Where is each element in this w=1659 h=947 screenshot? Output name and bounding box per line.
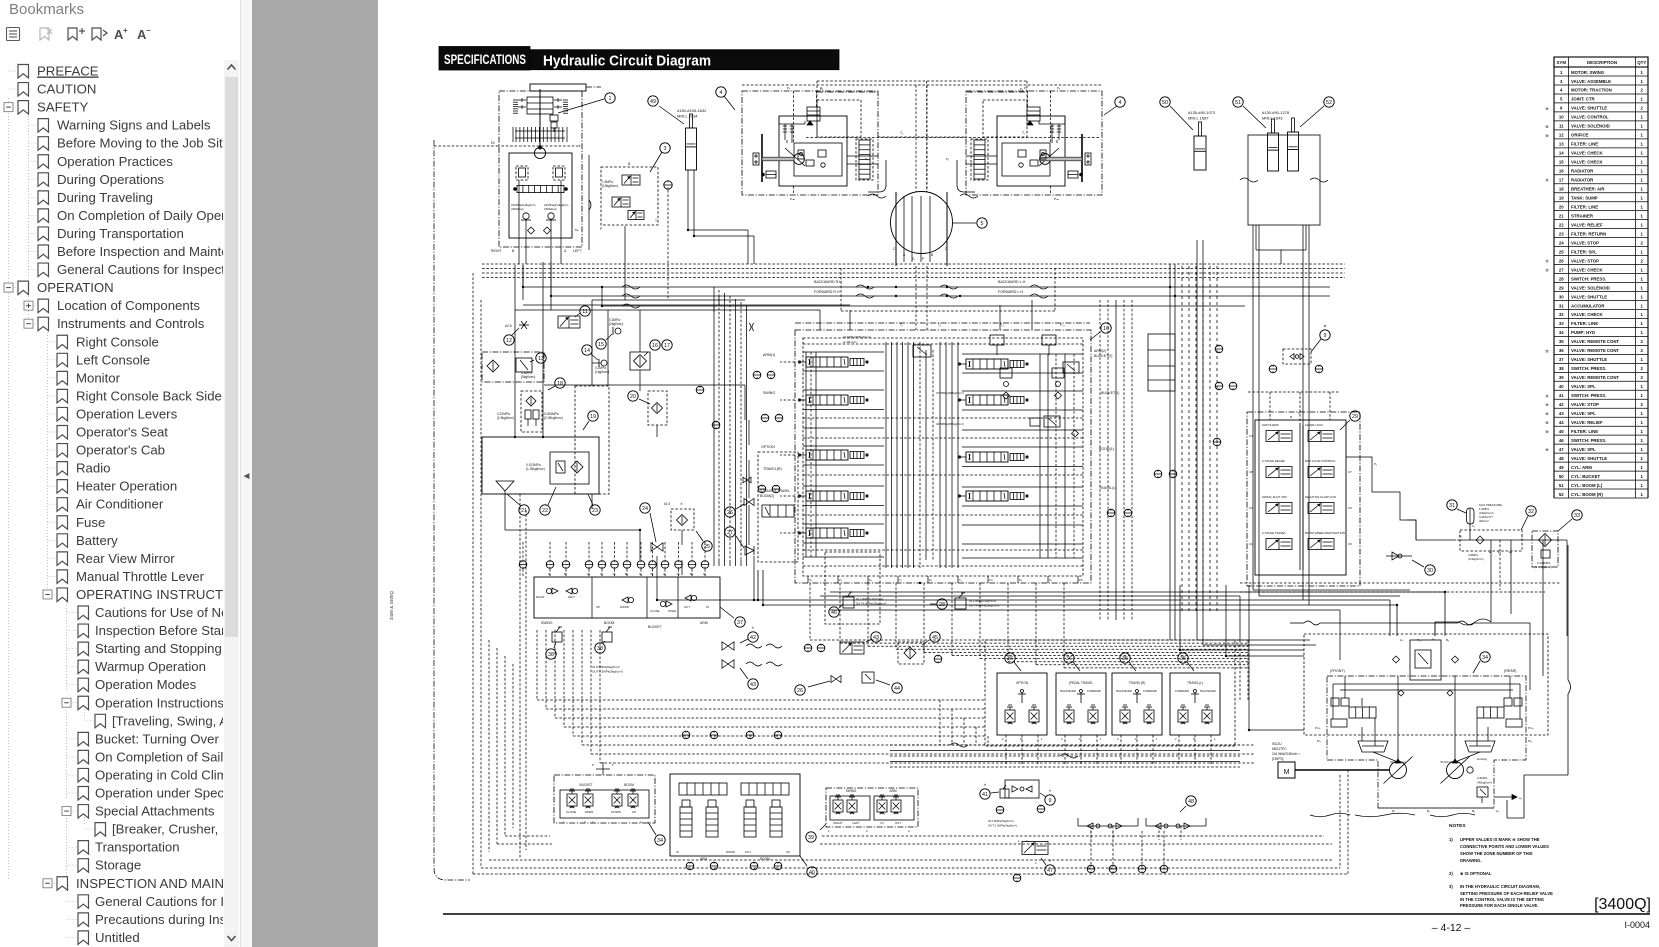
svg-text:16: 16	[652, 343, 658, 349]
svg-text:(15kgf/cm²): (15kgf/cm²)	[602, 184, 618, 188]
svg-text:35: 35	[1559, 339, 1564, 344]
svg-text:DOWN: DOWN	[726, 850, 735, 854]
svg-text:M: M	[1284, 769, 1290, 776]
options menu icon	[7, 28, 20, 41]
callout 11	[580, 306, 590, 316]
svg-text:2: 2	[1035, 861, 1037, 865]
svg-text:UP: UP	[596, 605, 600, 609]
svg-text:BOOM SPEED RESTRICTION: BOOM SPEED RESTRICTION	[1305, 531, 1345, 535]
svg-text:BUCKET(1): BUCKET(1)	[1101, 391, 1119, 395]
svg-text:VALVE: SPL: VALVE: SPL	[1571, 411, 1596, 416]
svg-text:Dr: Dr	[491, 141, 496, 145]
svg-text:1: 1	[1641, 330, 1644, 335]
wire: cv left feeds	[780, 361, 795, 363]
svg-text:VALVE: SHUTTLE: VALVE: SHUTTLE	[1571, 294, 1607, 299]
svg-text:36: 36	[1007, 656, 1013, 662]
footer rule	[443, 913, 1650, 915]
svg-text:※: ※	[1009, 647, 1012, 651]
traction pilot sub-rects	[817, 100, 861, 137]
bookmark row: Bucket: Turning Over and Repla	[67, 731, 284, 746]
svg-text:VALVE: ASSEMBLE: VALVE: ASSEMBLE	[1571, 79, 1611, 84]
accumulator 31	[1467, 508, 1475, 524]
svg-text:4: 4	[1119, 100, 1122, 106]
svg-text:OPEN: OPEN	[668, 609, 676, 613]
svg-text:2: 2	[1061, 737, 1063, 741]
control valve spool swing	[806, 395, 848, 405]
port relief B	[1052, 368, 1064, 378]
svg-text:(FRONT): (FRONT)	[1330, 669, 1345, 673]
callout 43	[748, 679, 758, 689]
svg-text:(0.9kgf/cm²): (0.9kgf/cm²)	[1468, 557, 1483, 561]
svg-text:1: 1	[1641, 97, 1644, 102]
tree guide line	[28, 116, 30, 278]
filter 13 diamond	[487, 360, 499, 372]
svg-text:Pₚ₁: Pₚ₁	[1000, 323, 1005, 327]
manifold top stubs	[522, 569, 524, 577]
table row 42 VALVE: STOP	[1545, 402, 1648, 408]
svg-text:17: 17	[1559, 178, 1564, 183]
traction left gear stack	[859, 140, 870, 179]
svg-text:C3: C3	[1249, 506, 1253, 510]
svg-text:LEFT: LEFT	[852, 821, 859, 825]
svg-text:−: −	[146, 26, 151, 35]
svg-text:43: 43	[750, 682, 756, 688]
svg-text:47: 47	[1047, 868, 1053, 874]
svg-text:T: T	[612, 763, 614, 767]
svg-text:1: 1	[1641, 285, 1644, 290]
svg-text:42: 42	[750, 635, 756, 641]
svg-text:2: 2	[1641, 106, 1644, 111]
tree guide line	[66, 602, 68, 690]
traction left axle	[761, 134, 763, 182]
svg-text:P₄: P₄	[929, 578, 933, 582]
svg-text:44: 44	[894, 686, 900, 692]
cv travel gauges	[1107, 509, 1115, 517]
callout 48	[1186, 796, 1196, 806]
control valve spool travel-L	[966, 491, 1008, 501]
bookmark row: Transportation	[67, 840, 180, 855]
svg-text:VALVE: STOP: VALVE: STOP	[1571, 240, 1599, 245]
svg-text:1: 1	[1641, 438, 1644, 443]
40 gauges top	[682, 731, 690, 739]
svg-text:(3000psi): (3000psi)	[544, 207, 557, 211]
svg-text:Warning Signs and Labels: Warning Signs and Labels	[57, 118, 211, 133]
bookmark row: Operation Instructions	[62, 695, 224, 710]
travel pedal valve 40 box	[670, 774, 800, 856]
spl valve 43 solenoid	[840, 642, 864, 654]
table row 36 VALVE: REMOTE CONT	[1545, 348, 1648, 354]
svg-text:1: 1	[1100, 737, 1102, 741]
svg-text:10: 10	[1559, 115, 1564, 120]
svg-text:Pn: Pn	[989, 578, 993, 582]
control valve spool arm-2	[966, 359, 1008, 369]
rcv39 reducing valve 1	[833, 800, 843, 812]
svg-text:23: 23	[1559, 231, 1564, 236]
switch press 38 b	[602, 632, 612, 642]
svg-text:IN: IN	[676, 850, 679, 854]
svg-text:(2kgf/cm²): (2kgf/cm²)	[609, 322, 623, 326]
pump 34 boundary	[1327, 676, 1526, 808]
svg-text:B: B	[628, 162, 631, 166]
svg-text:B₁: B₁	[1459, 534, 1462, 538]
svg-text:P₂: P₂	[946, 157, 950, 161]
rcv34 reducing valve 2	[583, 794, 593, 806]
svg-text:Pt₂: Pt₂	[1528, 739, 1533, 743]
callout 9	[1320, 330, 1330, 340]
svg-text:Fuse: Fuse	[76, 515, 105, 530]
svg-text:Pm₂: Pm₂	[1528, 726, 1535, 730]
svg-text:JOINT: CTR: JOINT: CTR	[1571, 97, 1596, 102]
bookmark row: OPERATING INSTRUCTIONS	[43, 587, 255, 602]
svg-text:A: A	[564, 249, 567, 253]
new bookmark icon	[68, 28, 85, 40]
svg-text:46: 46	[831, 610, 837, 616]
top pilot dashed loop	[817, 80, 1027, 82]
pump internal wires	[1397, 676, 1399, 761]
svg-text:BOOM: BOOM	[624, 783, 634, 787]
engine shaft	[1295, 769, 1390, 771]
svg-text:17: 17	[664, 343, 670, 349]
table outer border	[1553, 57, 1555, 498]
svg-text:50: 50	[1162, 100, 1168, 106]
swing relief L	[516, 166, 528, 180]
svg-text:Cautions for Use of New Machin: Cautions for Use of New Machine	[95, 605, 223, 620]
svg-text:18: 18	[1559, 187, 1564, 192]
pump out top line	[1290, 622, 1304, 624]
cv top small valves	[990, 335, 1004, 345]
svg-text:1: 1	[1156, 737, 1158, 741]
pilot bundle risers	[713, 287, 715, 560]
svg-text:Pₚ: Pₚ	[1049, 578, 1053, 582]
callout 36 for OPTION	[1005, 653, 1015, 663]
svg-text:A₂: A₂	[1496, 809, 1500, 813]
svg-text:※: ※	[1545, 447, 1549, 452]
svg-text:E₁: E₁	[1489, 550, 1492, 554]
svg-text:52: 52	[1326, 100, 1332, 106]
stop valve 24	[651, 543, 657, 551]
table row 11 VALVE: SOLENOID	[1545, 124, 1648, 130]
callout 46	[829, 607, 839, 617]
svg-text:C6: C6	[1348, 506, 1352, 510]
svg-text:BACKWARD: BACKWARD	[1200, 689, 1215, 693]
wire: stop-valve riser	[748, 460, 750, 498]
svg-text:1: 1	[1641, 267, 1644, 272]
svg-text:#130-#90-1278: #130-#90-1278	[1262, 110, 1290, 115]
pedal valve OPTION reducers	[1005, 710, 1015, 722]
svg-text:2: 2	[592, 820, 594, 824]
callouts 21 22 23	[519, 505, 529, 515]
svg-text:C7: C7	[1348, 470, 1352, 474]
table row 40 VALVE: SPL	[1554, 384, 1648, 390]
svg-text:NOTES: NOTES	[1449, 823, 1466, 829]
svg-text:2: 2	[1002, 737, 1004, 741]
vertical hose bumps	[749, 323, 751, 331]
svg-text:Pb: Pb	[1079, 578, 1083, 582]
svg-text:Dr: Dr	[1392, 809, 1395, 813]
svg-text:1: 1	[1641, 384, 1644, 389]
svg-text:Air Conditioner: Air Conditioner	[76, 497, 164, 512]
drop lines E	[1490, 540, 1492, 614]
table row 21 STRAINER	[1554, 213, 1648, 219]
svg-text:C₃: C₃	[677, 572, 680, 576]
svg-text:※: ※	[1545, 393, 1549, 398]
hose breaks on travel lines	[622, 285, 640, 289]
svg-text:TRAVEL(L): TRAVEL(L)	[1187, 681, 1203, 685]
pedal valve TRAVEL(R) box	[1112, 673, 1162, 735]
pedal valve TRAVEL(R) reducers	[1120, 710, 1130, 722]
40 damper column x776	[770, 807, 782, 837]
callout 12	[504, 335, 514, 345]
shuttle valve 9b	[1005, 780, 1039, 798]
bookmark row: Cautions for Use of New Machine	[67, 605, 292, 620]
40 spool right	[741, 783, 789, 795]
solenoid bank 29 outline	[1255, 420, 1346, 575]
traction left slash	[785, 148, 805, 166]
svg-text:DESCRIPTION: DESCRIPTION	[1587, 60, 1617, 65]
svg-text:BOOM: BOOM	[760, 857, 770, 861]
traction left counterbalance valve	[807, 107, 820, 121]
control valve 10 boundary	[795, 330, 1091, 583]
right dashed feeds	[1240, 582, 1560, 584]
svg-text:Pₜₘ: Pₜₘ	[790, 197, 795, 201]
svg-text:2: 2	[1641, 348, 1644, 353]
table row 32 VALVE: CHECK	[1554, 312, 1648, 318]
45 gauge	[934, 655, 942, 663]
svg-text:1: 1	[1641, 456, 1644, 461]
svg-text:6BG1TPC: 6BG1TPC	[1272, 747, 1287, 751]
traction left pilot dashed risers	[793, 91, 795, 143]
svg-text:Untitled: Untitled	[95, 930, 140, 945]
extra bottom frame lines	[497, 843, 552, 845]
table row 33 FILTER: LINE	[1554, 321, 1648, 327]
svg-text:Left Console: Left Console	[76, 352, 150, 367]
svg-text:Location of Components: Location of Components	[57, 298, 200, 313]
breather 18 springs	[525, 410, 531, 419]
svg-text:1: 1	[1641, 79, 1644, 84]
svg-text:27: 27	[1559, 267, 1564, 272]
switch press 46 group	[825, 552, 880, 624]
svg-text:BREATHER: AIR: BREATHER: AIR	[1571, 187, 1605, 192]
valve assemble 3 dashed box	[601, 167, 658, 225]
callout 13	[536, 353, 546, 363]
motor: traction left 4 outline	[742, 91, 878, 195]
svg-text:OUT 0.3MPa(3kgf/cm²): OUT 0.3MPa(3kgf/cm²)	[592, 670, 623, 674]
pilot bus dashed lines	[482, 263, 1345, 265]
bookmark row: Air Conditioner	[48, 497, 164, 512]
pedal valve TRAVEL(L) reducers	[1178, 710, 1188, 722]
svg-text:BOOM: BOOM	[604, 621, 615, 625]
svg-text:14: 14	[1559, 151, 1564, 156]
swing brake hatch right	[563, 99, 568, 101]
wire: suction line	[504, 494, 506, 530]
tank drop columns	[519, 494, 521, 858]
svg-text:1: 1	[1641, 492, 1644, 497]
svg-text:39: 39	[1559, 375, 1564, 380]
filter 13 box	[482, 352, 544, 382]
svg-text:30: 30	[1559, 294, 1564, 299]
svg-text:300cm³: 300cm³	[1479, 519, 1489, 523]
svg-text:SHOW THE ZONE NUMBER O: SHOW THE ZONE NUMBER OF THIS	[1460, 851, 1533, 856]
svg-text:※: ※	[1545, 420, 1549, 425]
callout 24	[640, 503, 650, 513]
svg-text:15: 15	[1559, 160, 1564, 165]
svg-text:– 4-12 –: – 4-12 –	[1432, 922, 1471, 934]
bookmark row: On Completion of Daily Operation	[29, 208, 255, 223]
bookmark row: Radio	[48, 461, 111, 476]
tank filter diamond	[571, 461, 583, 473]
pedal valve OPTION box	[997, 673, 1047, 735]
swing brake hatch left	[513, 99, 518, 101]
cv internal horizontal wiring	[803, 351, 884, 353]
svg-text:(1.05kgf/cm²): (1.05kgf/cm²)	[1535, 565, 1552, 569]
svg-text:1: 1	[1641, 420, 1644, 425]
table row 51 CYL: BOOM (L)	[1554, 483, 1648, 489]
svg-text:44: 44	[1559, 420, 1564, 425]
pilot staircase dashed	[536, 630, 538, 700]
table row 44 VALVE: RELIEF	[1545, 420, 1648, 426]
svg-text:※: ※	[1324, 324, 1327, 328]
bookmark row: Special Attachments	[62, 804, 215, 819]
bookmark row: Heater Operation	[48, 479, 178, 494]
svg-text:40: 40	[1559, 384, 1564, 389]
svg-text:Manual Throttle Lever: Manual Throttle Lever	[76, 569, 205, 584]
svg-text:FILTER: LINE: FILTER: LINE	[1571, 142, 1598, 147]
boom cyl bottom link	[1255, 225, 1257, 250]
bookmark row: INSPECTION AND MAINTENANCE	[43, 876, 287, 891]
table row 19 TANK: SUMP	[1554, 196, 1648, 202]
load check diamonds	[1003, 392, 1010, 399]
svg-text:On Completion of Saily Operati: On Completion of Saily Operatio	[95, 749, 223, 764]
svg-text:C4: C4	[1249, 434, 1253, 438]
svg-text:43: 43	[873, 635, 879, 641]
pump suction tees	[1373, 752, 1398, 762]
svg-text:+: +	[123, 26, 128, 35]
svg-text:19: 19	[590, 414, 596, 420]
table row 48 VALVE: SHUTTLE	[1554, 456, 1648, 462]
svg-text:36: 36	[1559, 348, 1564, 353]
boom cylinder frame	[1248, 135, 1320, 225]
table row 16 RADIATOR	[1554, 169, 1648, 175]
table row 37 VALVE: SHUTTLE	[1554, 357, 1648, 363]
svg-text:VALVE: SOLENOID: VALVE: SOLENOID	[1571, 124, 1610, 129]
table row 50 CYL: BUCKET	[1554, 474, 1648, 480]
bookmark row: Manual Throttle Lever	[48, 569, 205, 584]
svg-text:RIGHT: RIGHT	[491, 249, 502, 253]
svg-text:1: 1	[563, 820, 565, 824]
svg-text:OPTION: OPTION	[761, 445, 775, 449]
bookmark row: Battery	[48, 533, 119, 548]
svg-text:1: 1	[1641, 312, 1644, 317]
svg-text:1: 1	[1641, 465, 1644, 470]
callout 16 17	[650, 340, 660, 350]
40 damper column x686	[680, 807, 692, 837]
traction T2 link	[878, 136, 966, 138]
svg-text:9: 9	[1049, 798, 1052, 804]
svg-text:Transportation: Transportation	[95, 840, 180, 855]
table row 28 SWITCH: PRESS.	[1554, 276, 1648, 282]
svg-text:DOWN: DOWN	[620, 605, 629, 609]
wire: gauge row feeds	[522, 542, 524, 560]
svg-text:C1: C1	[1249, 542, 1253, 546]
svg-text:VALVE: REMOTE CONT: VALVE: REMOTE CONT	[1571, 348, 1619, 353]
junction dots	[522, 286, 524, 288]
svg-text:Instruments and Controls: Instruments and Controls	[57, 316, 205, 331]
control valve spool option	[806, 491, 848, 501]
svg-text:FILTER: SPL: FILTER: SPL	[1571, 249, 1597, 254]
bookmark row: [Breaker, Crusher, Hand Crane	[85, 822, 294, 837]
28 symbol	[955, 598, 966, 609]
traction right park brake	[1068, 171, 1078, 178]
bookmark row: During Traveling	[29, 190, 154, 205]
traction left motor circle	[794, 154, 805, 165]
svg-text:VALVE: REMOTE CONT: VALVE: REMOTE CONT	[1571, 375, 1619, 380]
svg-text:ARM(1): ARM(1)	[763, 353, 775, 357]
svg-text:Radio: Radio	[76, 461, 110, 476]
table row 35 VALVE: REMOTE CONT	[1554, 339, 1648, 345]
svg-text:A₁: A₁	[548, 572, 551, 576]
wire: swing drain lines	[514, 265, 516, 437]
svg-text:OUT 4.9MPa(50kgf/cm²): OUT 4.9MPa(50kgf/cm²)	[969, 604, 999, 608]
svg-text:50: 50	[1559, 474, 1564, 479]
svg-text:13: 13	[1559, 142, 1564, 147]
svg-text:11: 11	[1559, 124, 1564, 129]
svg-text:1: 1	[1641, 276, 1644, 281]
wire: pump riser left	[1389, 600, 1391, 636]
svg-text:FILTER: LINE: FILTER: LINE	[1571, 321, 1598, 326]
svg-text:1: 1	[1641, 411, 1644, 416]
svg-text:39: 39	[808, 835, 814, 841]
traction right counterbalance valve	[1027, 107, 1040, 121]
svg-text:※: ※	[984, 783, 987, 787]
svg-text:Operating in Cold Climates: Operating in Cold Climates	[95, 767, 223, 782]
bookmark row: Before Inspection and Maintenance	[29, 244, 265, 259]
swing spool	[517, 185, 564, 192]
traction right bottom port	[1050, 186, 1052, 195]
svg-text:Operator's Seat: Operator's Seat	[76, 425, 168, 440]
wire: rear pump feed	[830, 591, 1445, 593]
tree guide line	[8, 98, 10, 880]
bookmark row: Storage	[67, 858, 142, 873]
svg-text:※: ※	[1545, 268, 1549, 273]
svg-text:25: 25	[1559, 249, 1564, 254]
switch 46 symbol	[843, 597, 854, 608]
svg-text:1: 1	[1641, 169, 1644, 174]
svg-text:I-0004: I-0004	[1624, 920, 1650, 930]
svg-text:RIGHT: RIGHT	[536, 595, 545, 599]
cv bottom dashed drops	[809, 583, 811, 640]
svg-text:T₁: T₁	[899, 578, 902, 582]
svg-text:Pₚ₂: Pₚ₂	[1060, 323, 1065, 327]
svg-text:2: 2	[1641, 258, 1644, 263]
svg-text:✕: ✕	[578, 144, 581, 148]
svg-text:STRAIGHT TRAVEL: STRAIGHT TRAVEL	[760, 489, 790, 493]
delete bookmark icon (disabled)	[40, 28, 52, 40]
svg-text:2: 2	[1641, 88, 1644, 93]
svg-text:T₁: T₁	[1022, 131, 1026, 135]
cyl boom L 51	[1268, 133, 1279, 171]
svg-text:INSPECTION AND MAINTENANCE: INSPECTION AND MAINTENANCE	[76, 876, 223, 891]
traction left small parts	[798, 150, 804, 159]
svg-text:IN 0.5MPa(5kgf/cm²): IN 0.5MPa(5kgf/cm²)	[592, 665, 620, 669]
solenoid bank center rail	[1299, 425, 1301, 570]
rcv34 reducing valve 4	[628, 794, 638, 806]
filter 33 diamond	[1539, 534, 1552, 547]
switch press 38 a	[552, 632, 562, 642]
callout 41	[980, 789, 990, 799]
pedal valve (PEDAL TRAVEL lever	[1080, 693, 1082, 703]
svg-text:Operation Modes: Operation Modes	[95, 677, 197, 692]
svg-text:VALVE: CONTROL: VALVE: CONTROL	[1571, 115, 1609, 120]
